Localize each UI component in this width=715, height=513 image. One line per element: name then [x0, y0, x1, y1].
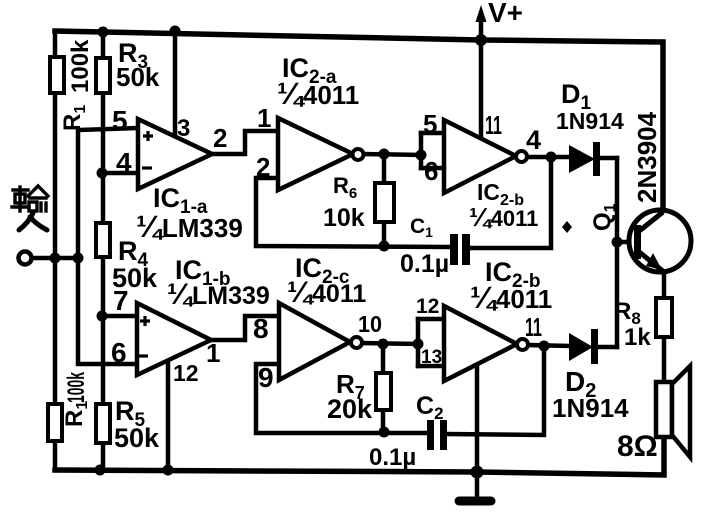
- svg-text:1N914: 1N914: [556, 108, 624, 134]
- svg-text:2: 2: [256, 152, 270, 182]
- svg-text:1k: 1k: [624, 324, 651, 351]
- svg-text:¼4011: ¼4011: [277, 76, 359, 111]
- svg-text:50k: 50k: [116, 62, 160, 92]
- svg-text:4: 4: [116, 147, 132, 178]
- svg-text:6: 6: [424, 156, 438, 186]
- svg-text:10k: 10k: [323, 204, 365, 232]
- svg-text:20k: 20k: [327, 394, 373, 424]
- svg-text:100k: 100k: [63, 372, 90, 403]
- svg-text:1: 1: [206, 338, 220, 368]
- svg-text:0.1µ: 0.1µ: [369, 444, 416, 471]
- svg-text:11: 11: [485, 110, 502, 140]
- svg-text:6: 6: [111, 337, 127, 368]
- svg-text:¼LM339: ¼LM339: [136, 209, 243, 244]
- svg-text:12: 12: [173, 360, 199, 386]
- svg-text:1: 1: [257, 103, 271, 133]
- svg-text:11: 11: [525, 312, 542, 342]
- svg-text:7: 7: [113, 285, 129, 316]
- svg-text:8: 8: [253, 313, 269, 344]
- svg-text:5: 5: [423, 109, 437, 139]
- svg-text:2N3904: 2N3904: [632, 111, 662, 203]
- svg-text:2: 2: [213, 123, 227, 153]
- svg-text:5: 5: [112, 105, 128, 136]
- svg-text:12: 12: [416, 295, 439, 318]
- svg-text:13: 13: [421, 347, 442, 368]
- svg-text:9: 9: [258, 362, 274, 393]
- svg-text:¼4011: ¼4011: [469, 202, 538, 232]
- svg-text:8Ω: 8Ω: [617, 430, 658, 463]
- svg-text:50k: 50k: [114, 423, 160, 453]
- svg-text:4: 4: [526, 125, 541, 155]
- svg-text:1N914: 1N914: [552, 393, 629, 423]
- svg-text:0.1µ: 0.1µ: [400, 250, 449, 278]
- svg-text:10: 10: [358, 311, 382, 337]
- svg-text:¼4011: ¼4011: [470, 280, 552, 315]
- svg-text:V+: V+: [488, 0, 523, 28]
- svg-text:¼4011: ¼4011: [287, 276, 366, 309]
- svg-text:100k: 100k: [67, 39, 94, 93]
- svg-text:3: 3: [177, 115, 190, 142]
- svg-text:¼LM339: ¼LM339: [167, 278, 270, 311]
